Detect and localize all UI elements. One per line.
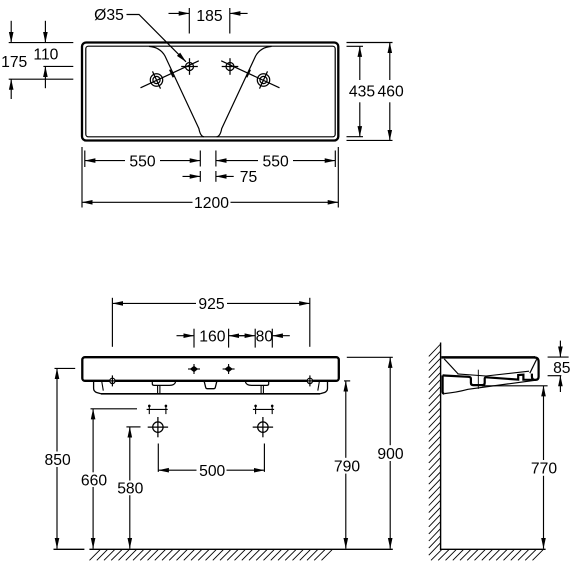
dimension 580 xyxy=(126,427,140,549)
dimension 770 xyxy=(482,386,548,549)
svg-text:850: 850 xyxy=(45,452,71,469)
basin back slope xyxy=(444,359,458,374)
dimension 790 xyxy=(344,381,350,549)
dimensions 160 and 80 xyxy=(177,329,290,348)
svg-text:75: 75 xyxy=(240,169,258,186)
dimension 500 xyxy=(158,444,264,472)
svg-text:900: 900 xyxy=(377,446,403,463)
svg-text:550: 550 xyxy=(263,153,289,170)
left faucet hole marker (diamond) xyxy=(188,364,200,374)
wall bracket xyxy=(443,375,445,393)
top view outer rim xyxy=(82,43,338,141)
tick on right centerline xyxy=(247,70,251,78)
floor hatch side view xyxy=(431,550,543,561)
right drain crosshair xyxy=(253,417,273,437)
dimension 85 xyxy=(548,341,569,392)
left trap xyxy=(158,385,160,393)
extension lines right of top view xyxy=(347,43,393,141)
svg-text:435: 435 xyxy=(349,84,375,101)
dimension 850 xyxy=(55,368,76,548)
front view slab xyxy=(82,357,339,381)
wall hatch xyxy=(429,344,441,555)
dimension 435 xyxy=(359,46,361,136)
svg-text:80: 80 xyxy=(256,328,274,345)
right basin divider wall xyxy=(217,46,272,136)
dimension 110 xyxy=(44,21,46,88)
floor line front view xyxy=(54,548,393,550)
svg-text:160: 160 xyxy=(199,328,225,345)
right basin faucet centerline xyxy=(221,61,279,88)
dimension 900 xyxy=(347,357,393,548)
right single-hole target symbol xyxy=(257,71,269,88)
left faucet hole O35 circle xyxy=(181,58,198,75)
extension lines below top view xyxy=(82,147,338,208)
right faucet hole marker (diamond) xyxy=(223,364,235,374)
right trap bolt marks xyxy=(253,405,274,414)
svg-text:550: 550 xyxy=(129,153,155,170)
basin underside profile xyxy=(443,375,532,385)
left drain crosshair xyxy=(148,417,168,437)
basin floor line xyxy=(458,371,530,376)
right fixing hole xyxy=(304,375,315,386)
floor hatch front view xyxy=(90,550,333,561)
dimension 925 xyxy=(112,298,309,347)
svg-text:175: 175 xyxy=(1,54,27,71)
svg-text:770: 770 xyxy=(531,461,557,478)
wall line xyxy=(440,343,442,551)
dimension 550 left xyxy=(85,160,201,162)
right trap xyxy=(261,385,263,393)
svg-text:925: 925 xyxy=(198,296,224,313)
extension lines top-left xyxy=(9,43,74,80)
left trap bolt marks xyxy=(147,405,168,414)
dimension 175 xyxy=(10,21,12,99)
right faucet hole O35 circle xyxy=(222,58,239,75)
svg-text:580: 580 xyxy=(117,481,143,498)
center drain box xyxy=(204,382,216,389)
svg-text:Ø35: Ø35 xyxy=(94,7,124,24)
left basin faucet centerline xyxy=(141,61,199,88)
svg-text:1200: 1200 xyxy=(194,195,229,212)
svg-text:790: 790 xyxy=(334,459,360,476)
floor line side view xyxy=(441,548,546,550)
left wall bracket xyxy=(152,382,175,386)
side view top surface xyxy=(441,356,535,359)
svg-text:500: 500 xyxy=(199,463,225,480)
svg-text:185: 185 xyxy=(196,8,222,25)
left basin divider wall xyxy=(149,46,204,136)
left fixing hole xyxy=(107,375,118,386)
underside curve xyxy=(444,380,535,393)
skirt left end xyxy=(94,382,101,394)
dimension 1200 xyxy=(82,201,338,203)
svg-text:110: 110 xyxy=(33,47,58,64)
top view inner rim xyxy=(86,46,335,137)
svg-text:460: 460 xyxy=(378,84,404,101)
dimension 550 right xyxy=(216,160,335,162)
right wall bracket xyxy=(245,382,268,386)
dimension 185 (hole spacing) xyxy=(169,8,248,34)
svg-text:660: 660 xyxy=(81,473,107,490)
drain centerline xyxy=(477,370,479,389)
tick on left centerline xyxy=(170,70,174,78)
svg-text:85: 85 xyxy=(553,360,570,377)
dimension 75 xyxy=(183,175,234,177)
side view front face xyxy=(532,357,539,380)
dimension 460 xyxy=(389,43,391,141)
left single-hole target symbol xyxy=(150,71,162,88)
dimension 660 xyxy=(91,409,138,549)
skirt bottom edge xyxy=(101,393,320,395)
skirt right end xyxy=(320,382,327,394)
basin front slope xyxy=(530,359,537,373)
